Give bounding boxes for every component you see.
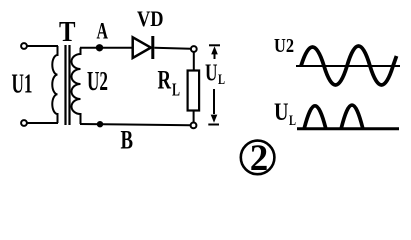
node B	[97, 121, 103, 127]
svg-text:T: T	[59, 17, 76, 48]
transformer T secondary winding	[72, 48, 81, 124]
diode VD cathode bar	[151, 36, 154, 59]
UL waveform axis	[297, 127, 399, 130]
diode VD	[133, 37, 151, 58]
svg-text:A: A	[97, 19, 109, 44]
UL marker top bar	[209, 44, 220, 46]
terminal top-left	[21, 43, 27, 49]
resistor RL	[188, 71, 200, 111]
transformer T primary winding	[52, 46, 57, 123]
UL waveform hump 2	[341, 105, 363, 129]
UL marker bottom bar	[208, 124, 219, 126]
svg-text:U2: U2	[274, 35, 294, 57]
UL marker bottom arrow	[213, 89, 215, 114]
svg-text:VD: VD	[137, 6, 164, 31]
wire resistor to bottom-right terminal	[193, 111, 195, 123]
wire down to resistor	[193, 52, 195, 70]
U2 waveform axis	[296, 65, 400, 67]
svg-text:L: L	[289, 113, 296, 129]
U2 waveform sine	[301, 46, 397, 85]
wire diode to top-right terminal	[154, 48, 190, 49]
wire secondary bottom	[80, 124, 190, 125]
figure number circle 2	[241, 141, 275, 175]
svg-text:U1: U1	[12, 69, 33, 99]
wire primary top	[27, 45, 58, 47]
svg-text:U2: U2	[87, 66, 108, 96]
svg-text:B: B	[121, 126, 134, 155]
UL marker top arrow	[214, 51, 216, 59]
svg-text:U: U	[274, 99, 289, 126]
svg-text:U: U	[205, 61, 218, 87]
wire primary bottom	[27, 122, 58, 124]
UL waveform hump 1	[304, 106, 326, 129]
transformer core	[66, 45, 70, 125]
svg-text:2: 2	[250, 138, 268, 179]
terminal top-right	[191, 46, 197, 52]
svg-text:L: L	[172, 80, 180, 100]
svg-text:R: R	[158, 66, 172, 95]
terminal bottom-left	[21, 120, 27, 126]
node A	[96, 44, 103, 51]
wire secondary top to diode	[80, 47, 133, 49]
svg-text:L: L	[218, 72, 225, 88]
terminal bottom-right	[191, 123, 197, 129]
